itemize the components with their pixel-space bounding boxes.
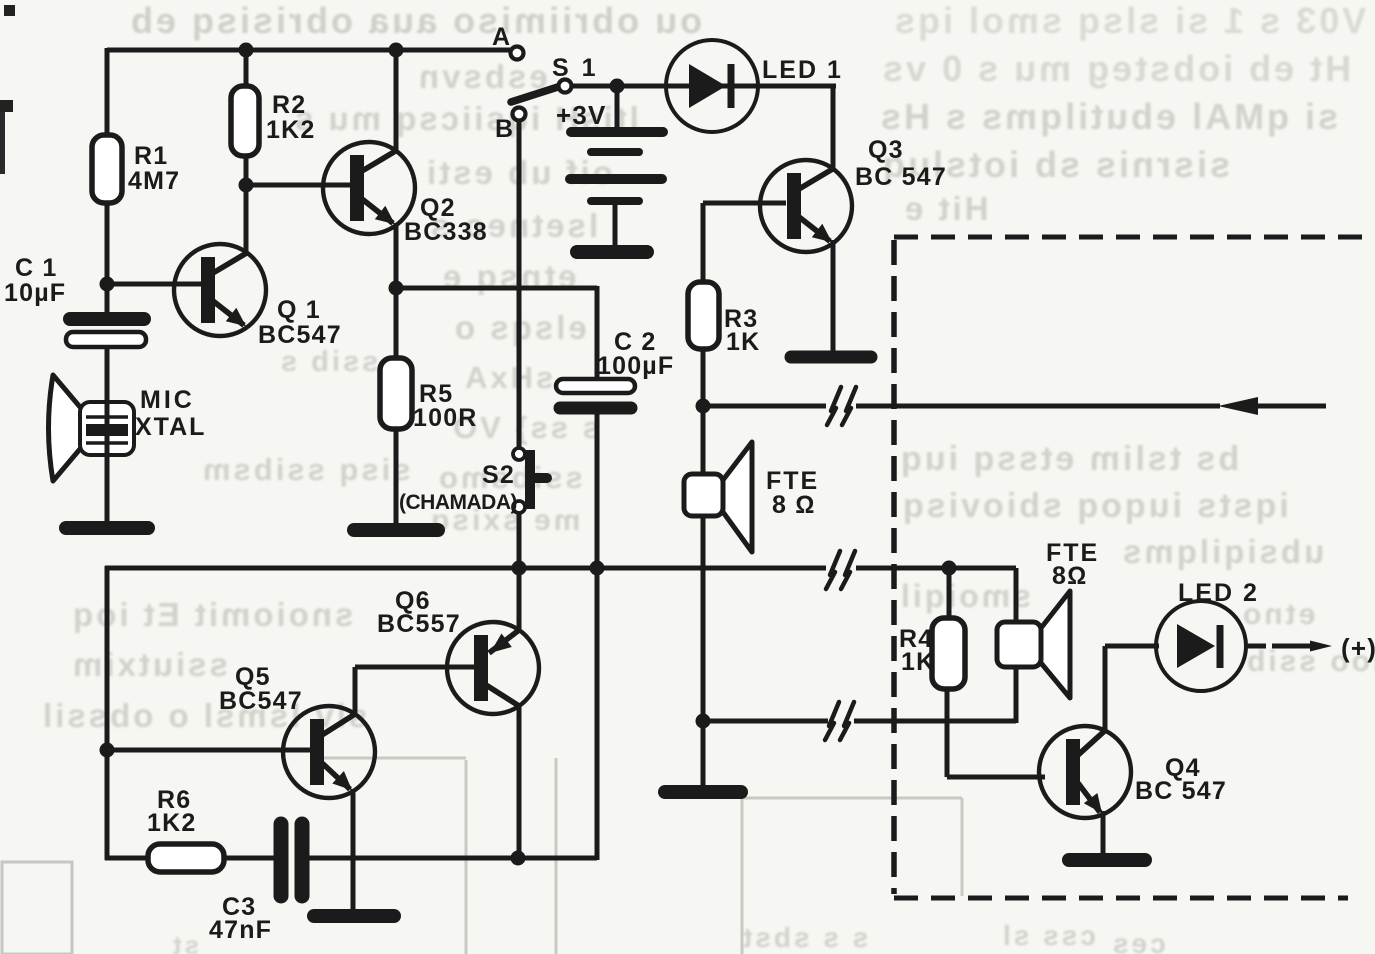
svg-text:Q3: Q3: [868, 136, 904, 164]
svg-text:XTAL: XTAL: [135, 413, 206, 441]
svg-text:BC557: BC557: [377, 610, 461, 638]
svg-text:1K2: 1K2: [147, 809, 196, 837]
svg-text:BC 547: BC 547: [1135, 777, 1227, 805]
svg-text:R2: R2: [272, 91, 306, 119]
svg-text:(CHAMADA): (CHAMADA): [399, 491, 517, 514]
svg-text:BC547: BC547: [258, 321, 342, 349]
svg-text:+3V: +3V: [556, 100, 607, 130]
svg-text:10µF: 10µF: [4, 279, 66, 307]
svg-text:1K: 1K: [901, 648, 935, 676]
svg-text:100R: 100R: [413, 404, 478, 432]
svg-text:1K2: 1K2: [266, 116, 315, 144]
svg-text:8 Ω: 8 Ω: [772, 491, 816, 519]
svg-text:BC338: BC338: [404, 218, 488, 246]
svg-text:B: B: [495, 115, 514, 143]
svg-text:8Ω: 8Ω: [1052, 562, 1088, 590]
svg-text:MIC: MIC: [140, 386, 195, 414]
svg-text:A: A: [492, 23, 511, 51]
svg-text:(+): (+): [1341, 633, 1375, 663]
svg-text:LED 1: LED 1: [762, 56, 843, 84]
svg-text:1K: 1K: [726, 328, 760, 356]
svg-text:4M7: 4M7: [128, 167, 180, 195]
svg-text:100µF: 100µF: [597, 352, 674, 380]
svg-text:LED 2: LED 2: [1178, 579, 1259, 607]
svg-text:S 1: S 1: [552, 54, 599, 82]
svg-text:S2: S2: [482, 461, 515, 489]
svg-text:47nF: 47nF: [209, 916, 272, 944]
svg-text:BC547: BC547: [219, 687, 303, 715]
svg-text:R1: R1: [134, 142, 168, 170]
svg-text:C 1: C 1: [15, 254, 58, 282]
svg-text:Q 1: Q 1: [277, 296, 321, 324]
svg-text:BC 547: BC 547: [855, 163, 947, 191]
